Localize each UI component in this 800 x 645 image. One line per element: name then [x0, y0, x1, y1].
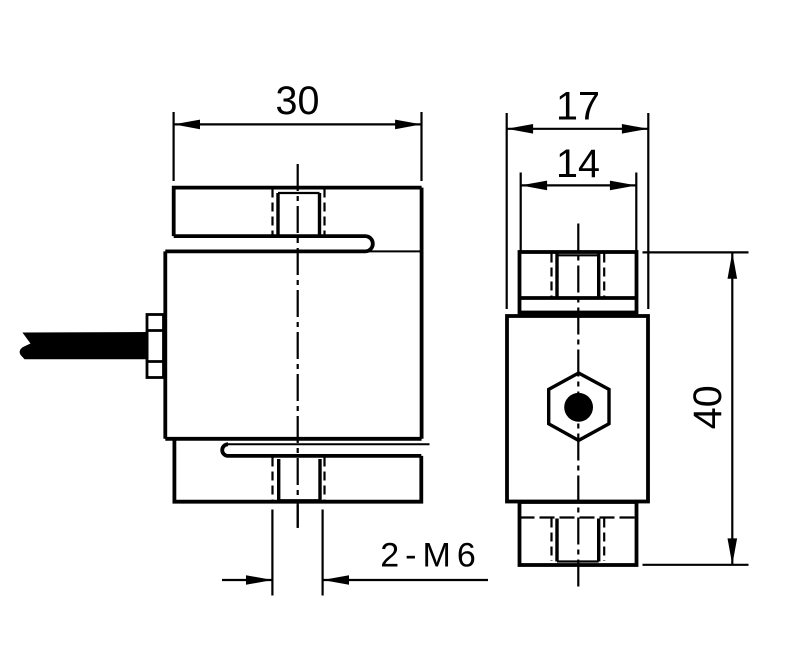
dimension 14: left arrowhead	[521, 181, 547, 191]
main body rectangle	[507, 316, 648, 502]
bottom hole dashed major-diameter lines	[273, 458, 325, 502]
bottom nut thread solid lines	[557, 519, 599, 562]
dimension 2-M6: short center-line tail below part	[297, 505, 299, 528]
svg-text:14: 14	[556, 142, 600, 186]
svg-text:40: 40	[686, 385, 730, 429]
lower slot bottom line / bottom block top edge	[228, 454, 421, 458]
middle body top edge (thick part, also upper slot bottom line)	[165, 249, 366, 253]
bottom hex nut outline	[520, 502, 637, 565]
dimension 17: right arrowhead	[622, 124, 648, 134]
top threaded hole M6: solid minor-diameter lines	[278, 193, 320, 235]
dimension 40: top reference line	[643, 251, 749, 253]
top nut washer line	[520, 296, 637, 300]
black circular hole in hex	[564, 393, 593, 422]
dimension 30: left arrowhead	[174, 120, 200, 130]
upper slot thin echo line to right edge	[366, 250, 422, 252]
dimension 2-M6: right dimension line segment	[323, 579, 488, 581]
svg-text:30: 30	[276, 79, 320, 123]
dimension 30: right arrowhead	[395, 120, 421, 130]
top nut thread relief line	[557, 254, 599, 256]
bottom nut thread dashed lines	[552, 519, 605, 562]
dimension 40: vertical dimension line	[731, 252, 733, 564]
dimension 2-M6: left dimension line segment	[222, 579, 272, 581]
cable (black, with broken end)	[20, 332, 149, 359]
top hole thread relief line	[278, 192, 320, 194]
dimension 2-M6: extension lines	[272, 510, 322, 596]
dimension 14: dimension line	[521, 184, 637, 186]
bottom block outline	[174, 439, 421, 502]
dimension 30: dimension line	[174, 123, 422, 125]
vertical center line of left view	[297, 164, 299, 528]
right edge of view (top block + middle body)	[420, 188, 424, 439]
cable gland step lines	[147, 331, 165, 362]
bottom threaded hole M6: solid minor-diameter lines	[279, 459, 320, 500]
dimension 17: extension lines	[507, 113, 649, 309]
top nut thread solid lines	[557, 252, 599, 298]
top block bottom edge / upper slot top line	[174, 234, 366, 238]
svg-text:2-M6: 2-M6	[380, 537, 481, 575]
lower slot thin echo line	[228, 443, 430, 445]
upper slot rounded cap	[366, 236, 373, 251]
dimension 40: bottom arrowhead	[728, 538, 738, 564]
lower slot rounded cap	[222, 444, 228, 456]
bottom nut dashed washer line	[520, 516, 637, 518]
dimension 40: top arrowhead	[728, 252, 738, 278]
dimension 2-M6: right arrowhead (pointing left)	[323, 575, 349, 585]
cable gland body	[147, 315, 164, 378]
top nut thread dashed lines	[552, 254, 605, 298]
dimension 40: bottom reference line	[643, 564, 749, 566]
dimension 14: extension lines	[521, 173, 637, 253]
top block outline	[174, 188, 422, 237]
svg-text:17: 17	[556, 85, 600, 129]
dimension 17: dimension line	[507, 128, 649, 130]
middle body bottom edge	[165, 437, 421, 441]
hex socket on body face	[549, 373, 609, 440]
dimension 2-M6: left arrowhead (pointing right)	[246, 575, 272, 585]
dimension 17: left arrowhead	[507, 124, 533, 134]
dimension 30: extension lines	[174, 112, 422, 181]
middle body left edge	[163, 251, 167, 438]
bottom nut thread relief line	[557, 560, 599, 562]
bottom hole thread relief line	[279, 499, 320, 501]
dimension 14: right arrowhead	[610, 181, 636, 191]
top hole dashed major-diameter lines	[273, 189, 325, 236]
top hex nut outline	[520, 252, 637, 313]
vertical center line of right view	[577, 224, 579, 589]
